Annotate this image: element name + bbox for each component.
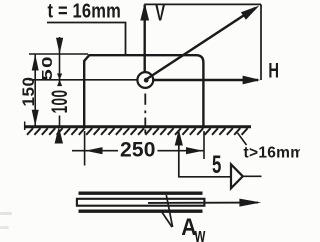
svg-text:100: 100 xyxy=(46,90,71,114)
centerline below circle xyxy=(144,94,146,134)
svg-text:50: 50 xyxy=(39,55,56,81)
plate outline xyxy=(84,55,203,126)
ground line xyxy=(25,125,252,128)
text 250 xyxy=(118,141,158,158)
svg-text:t = 16mm: t = 16mm xyxy=(48,0,121,22)
force rectangle top line xyxy=(145,3,261,5)
arrow 250 right xyxy=(186,147,203,154)
arrow 150 top xyxy=(32,54,39,70)
resultant force line xyxy=(146,8,255,80)
arrow 100 bottom (outside, below ground) xyxy=(55,127,63,144)
extension line top xyxy=(29,53,88,55)
weld reference line extension xyxy=(243,175,262,177)
fillet weld symbol triangle xyxy=(231,164,243,188)
force point dot xyxy=(144,78,149,83)
extension line 250 right xyxy=(203,131,205,159)
dimension line 150 xyxy=(34,54,36,126)
hatching xyxy=(27,128,248,135)
force rectangle right line xyxy=(260,4,262,80)
dimension line 50/100 xyxy=(59,37,61,85)
dimension line 250 xyxy=(72,150,203,152)
arrow pair at force level xyxy=(57,74,62,80)
extension line 250 left xyxy=(84,131,86,166)
weld detail axis arrow xyxy=(148,202,258,204)
weld detail: upper weld bead xyxy=(79,191,203,194)
arrow V xyxy=(140,3,149,21)
extension line at force level xyxy=(29,79,137,81)
arrow H xyxy=(243,76,261,85)
faint scan smudge bottom-left xyxy=(0,212,12,229)
arrow 250 left xyxy=(85,147,102,154)
weld leader arrow up xyxy=(175,130,183,146)
weld detail: lower weld bead xyxy=(79,209,203,212)
svg-text:5: 5 xyxy=(212,151,221,179)
label t=16mm xyxy=(47,0,126,54)
svg-text:w: w xyxy=(194,223,206,242)
weld detail: plate section rectangle xyxy=(77,199,204,206)
force application circle xyxy=(137,72,153,88)
arrow 150 bottom xyxy=(32,110,39,126)
leader to t>16mm xyxy=(238,133,247,145)
ground left tick xyxy=(24,122,26,131)
svg-text:H: H xyxy=(268,59,279,82)
svg-text:t>16mm: t>16mm xyxy=(244,144,301,161)
svg-text:250: 250 xyxy=(120,138,156,161)
force V line xyxy=(143,5,145,73)
weld leader stem xyxy=(179,131,231,177)
leader Aw 2 xyxy=(162,212,173,228)
leader Aw 1 xyxy=(166,195,172,227)
force H line xyxy=(153,79,258,81)
svg-text:150: 150 xyxy=(19,77,38,107)
arrow resultant xyxy=(241,6,259,20)
arrow 50 top (outside, pointing down) xyxy=(56,38,63,54)
